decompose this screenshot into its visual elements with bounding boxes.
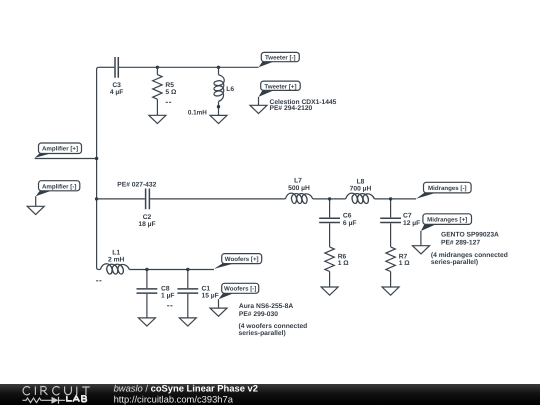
flag Tweeter [+] <box>259 81 301 97</box>
inductor L8 <box>346 178 375 203</box>
ground midranges+ <box>413 246 430 254</box>
resistor R7 <box>386 247 410 287</box>
flag Woofers [+] <box>214 254 262 269</box>
ground under C8 <box>138 318 155 326</box>
svg-text:(4 midranges connected: (4 midranges connected <box>431 252 508 259</box>
wire trunk to C2 <box>97 198 145 200</box>
svg-text:GENTO SP99023A: GENTO SP99023A <box>441 231 499 238</box>
svg-text:Tweeter [-]: Tweeter [-] <box>265 55 296 62</box>
wire trunk vertical <box>97 67 99 269</box>
wire L1 to woofers flag <box>129 269 214 271</box>
svg-text:series-parallel): series-parallel) <box>431 259 478 266</box>
annotation GENTO <box>441 231 499 246</box>
svg-text:C2: C2 <box>143 214 152 221</box>
logo CIRCUIT text <box>23 387 90 395</box>
svg-text:(4 woofers connected: (4 woofers connected <box>239 323 308 330</box>
svg-text:1 Ω: 1 Ω <box>338 260 350 267</box>
svg-text:0.1mH: 0.1mH <box>188 109 207 116</box>
annotation woofers note <box>239 323 308 337</box>
annotation Aura <box>239 303 293 318</box>
node C6 top <box>328 197 331 200</box>
flag Tweeter [-] <box>259 52 300 67</box>
svg-text:Aura NS6-255-8A: Aura NS6-255-8A <box>239 303 293 310</box>
svg-text:R5: R5 <box>165 82 174 89</box>
svg-text:L1: L1 <box>112 250 120 257</box>
capacitor C6 <box>319 199 356 247</box>
capacitor C1 <box>177 270 218 318</box>
svg-text:500 µH: 500 µH <box>288 185 310 192</box>
node at R5 top <box>156 66 159 69</box>
flag Midranges [+] <box>421 214 472 231</box>
resistor R5 <box>153 67 177 115</box>
svg-text:Woofers [+]: Woofers [+] <box>225 256 259 263</box>
capacitor C7 <box>380 199 420 247</box>
svg-text:PE# 289-127: PE# 289-127 <box>441 240 480 247</box>
resistor R6 <box>325 247 349 287</box>
flag Amplifier [-] <box>36 181 80 197</box>
node C8 top <box>145 268 148 271</box>
svg-text:--: -- <box>167 300 173 310</box>
ground under L6 <box>210 115 227 123</box>
svg-text:C6: C6 <box>343 213 352 220</box>
node at L6 bottom <box>217 105 220 108</box>
svg-text:5 Ω: 5 Ω <box>165 89 177 96</box>
svg-text:2 mH: 2 mH <box>108 257 125 264</box>
wire top from C3 to tweeter flag <box>119 66 259 68</box>
footer url text <box>114 393 234 404</box>
svg-text:L8: L8 <box>357 178 365 185</box>
ground under C1 <box>179 318 196 326</box>
node amp+ trunk <box>95 157 98 160</box>
node middle trunk <box>95 197 98 200</box>
svg-text:L6: L6 <box>226 86 234 93</box>
svg-text:L7: L7 <box>294 178 302 185</box>
svg-text:Midranges [-]: Midranges [-] <box>428 185 467 192</box>
inductor L7 <box>285 178 312 204</box>
footer title text <box>114 383 258 394</box>
wire amp+ to trunk <box>35 158 97 160</box>
wire tweeter+ to ground <box>258 97 260 105</box>
svg-text:Amplifier [+]: Amplifier [+] <box>42 146 78 153</box>
svg-text:C1: C1 <box>202 286 211 293</box>
svg-text:PE# 027-432: PE# 027-432 <box>117 182 156 189</box>
svg-text:4 µF: 4 µF <box>110 89 124 96</box>
wire top from trunk to C3 <box>99 66 115 68</box>
svg-text:Amplifier [-]: Amplifier [-] <box>42 183 76 190</box>
annotation PE# 027-432 <box>117 182 156 189</box>
svg-text:18 µF: 18 µF <box>138 221 155 228</box>
logo resistor zigzag <box>23 398 52 403</box>
wire L8 to midranges flag <box>374 198 416 200</box>
ground woofers- <box>210 308 227 316</box>
svg-text:http://circuitlab.com/c393h7a: http://circuitlab.com/c393h7a <box>114 393 234 404</box>
svg-text:C7: C7 <box>403 213 412 220</box>
ground under R6 <box>321 287 338 295</box>
svg-text:1 µF: 1 µF <box>161 293 175 300</box>
svg-text:C3: C3 <box>112 82 121 89</box>
wire trunk corner to L1 <box>99 269 101 271</box>
ground under R7 <box>382 287 399 295</box>
annotation midranges note <box>431 252 508 266</box>
capacitor C2 <box>138 189 155 228</box>
svg-text:PE# 294-2120: PE# 294-2120 <box>270 105 313 112</box>
svg-text:--: -- <box>165 96 171 106</box>
svg-text:Midranges [+]: Midranges [+] <box>427 217 467 224</box>
flag Amplifier [+] <box>35 143 82 158</box>
node at L6 top <box>217 66 220 69</box>
capacitor C3 <box>110 57 124 96</box>
inductor L1 <box>96 250 130 285</box>
svg-text:series-parallel): series-parallel) <box>239 330 286 337</box>
inductor L6 <box>188 67 234 116</box>
svg-text:1 Ω: 1 Ω <box>399 260 411 267</box>
wire L7 to L8 <box>313 198 346 200</box>
logo diode <box>52 397 66 404</box>
wire woofers- to ground <box>218 299 220 308</box>
svg-text:bwaslo / coSyne Linear Phase v: bwaslo / coSyne Linear Phase v2 <box>114 383 258 394</box>
capacitor C8 <box>137 270 175 318</box>
svg-text:C8: C8 <box>161 286 170 293</box>
flag Woofers [-] <box>219 283 259 299</box>
footer bar <box>0 384 540 405</box>
svg-text:Tweeter [+]: Tweeter [+] <box>264 83 296 90</box>
wire C2 to L7 <box>150 198 285 200</box>
logo LAB text <box>67 396 87 402</box>
node C7 top <box>389 197 392 200</box>
svg-text:15 µF: 15 µF <box>202 293 219 300</box>
annotation Celestion <box>270 99 337 112</box>
svg-text:6 µF: 6 µF <box>343 220 357 227</box>
flag Midranges [-] <box>416 182 471 198</box>
ground tweeter+ <box>250 105 267 113</box>
wire midranges+ to ground <box>420 231 422 246</box>
wire amp- to ground <box>35 196 37 206</box>
ground under R5 <box>149 115 166 123</box>
node C1 top <box>186 268 189 271</box>
svg-text:12 µF: 12 µF <box>403 220 420 227</box>
svg-text:PE# 299-030: PE# 299-030 <box>239 311 278 318</box>
ground amp- <box>27 206 44 214</box>
svg-text:Woofers [-]: Woofers [-] <box>224 286 256 293</box>
svg-text:--: -- <box>96 275 102 285</box>
svg-text:700 µH: 700 µH <box>350 185 372 192</box>
